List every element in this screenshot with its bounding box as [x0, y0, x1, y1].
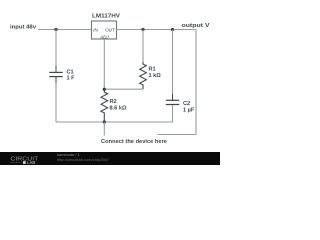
wire stub device negative [103, 122, 105, 136]
node junction dot ADJ/R2 [103, 88, 106, 91]
wire R1 top branch [142, 30, 144, 63]
resistor R2 [101, 89, 108, 122]
watermark bar [0, 152, 220, 165]
svg-text:C2: C2 [183, 101, 190, 107]
wire C1 top branch [55, 30, 57, 67]
wire R1 bottom to ADJ node [104, 88, 143, 90]
svg-text:8.6 kΩ: 8.6 kΩ [110, 105, 127, 111]
svg-text:IN: IN [93, 27, 98, 32]
wire input to IN pin [38, 29, 92, 31]
svg-text:1 µF: 1 µF [183, 107, 195, 113]
svg-text:ADJ: ADJ [99, 35, 109, 40]
wire ADJ pin down [103, 39, 105, 89]
wire C1 bottom to rail [55, 83, 57, 122]
node junction dot C2 branch [171, 28, 174, 31]
wire output right branch [158, 30, 197, 135]
svg-text:Connect the device here: Connect the device here [101, 139, 167, 145]
svg-text:1 F: 1 F [67, 76, 76, 82]
svg-text:OUT: OUT [105, 27, 116, 32]
wire bottom rail [56, 105, 173, 123]
op-amp U1 LM117HV box [92, 21, 117, 39]
capacitor C2 [166, 94, 179, 105]
resistor R1 [140, 62, 147, 89]
svg-text:LAB: LAB [27, 160, 36, 165]
node junction dot R1 branch [141, 28, 144, 31]
svg-text:R1: R1 [149, 67, 156, 73]
wire OUT pin to output [117, 29, 197, 31]
wire C2 top branch [172, 30, 174, 95]
svg-text:input 48v: input 48v [10, 25, 37, 31]
node junction dot C1 branch [54, 28, 57, 31]
svg-text:1 kΩ: 1 kΩ [149, 73, 162, 79]
svg-text:LM117HV: LM117HV [92, 14, 120, 20]
capacitor C1 [49, 66, 62, 83]
node junction dot R2 bottom [103, 120, 106, 123]
svg-text:R2: R2 [110, 99, 117, 105]
CircuitLab logo [10, 156, 38, 165]
svg-text:output V: output V [182, 23, 210, 29]
svg-text:http://circuitlab.com/c/dp25b7: http://circuitlab.com/c/dp25b7 [57, 157, 110, 162]
